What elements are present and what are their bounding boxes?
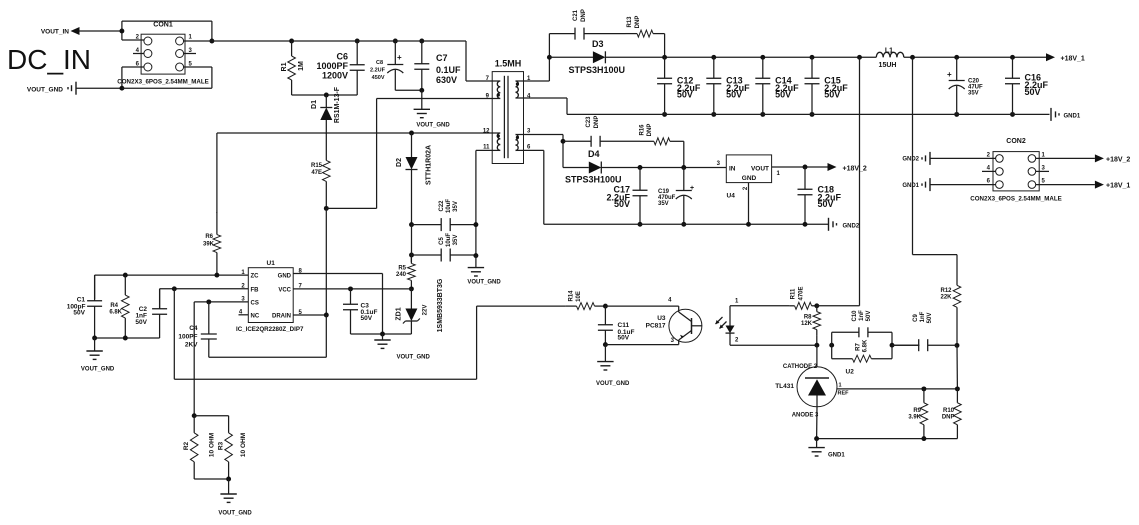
svg-text:3.9K: 3.9K — [908, 415, 921, 421]
svg-text:C10: C10 — [852, 310, 858, 322]
svg-text:+: + — [690, 185, 694, 192]
svg-text:NC: NC — [251, 313, 260, 319]
svg-text:VOUT_GND: VOUT_GND — [397, 355, 431, 361]
svg-text:1SMB5933BT3G: 1SMB5933BT3G — [437, 278, 444, 332]
svg-text:22V: 22V — [423, 305, 429, 316]
svg-text:R7: R7 — [856, 343, 862, 351]
svg-text:+18V_2: +18V_2 — [1106, 157, 1130, 164]
svg-text:VOUT_GND: VOUT_GND — [81, 367, 115, 373]
svg-text:2KV: 2KV — [185, 342, 198, 349]
svg-text:35V: 35V — [968, 91, 979, 97]
svg-text:R5: R5 — [398, 266, 406, 272]
svg-text:U1: U1 — [267, 260, 276, 267]
svg-text:GND: GND — [278, 274, 292, 280]
svg-text:12: 12 — [483, 129, 490, 135]
svg-text:35V: 35V — [453, 201, 459, 212]
svg-text:C7: C7 — [436, 53, 448, 63]
svg-text:10E: 10E — [576, 291, 582, 302]
svg-text:C22: C22 — [439, 200, 445, 212]
svg-text:50V: 50V — [775, 90, 791, 100]
svg-text:CON2: CON2 — [1006, 138, 1026, 145]
svg-text:CON1: CON1 — [153, 22, 173, 29]
svg-text:CS: CS — [251, 300, 259, 306]
svg-text:R16: R16 — [640, 124, 646, 136]
svg-text:GND2: GND2 — [902, 157, 919, 163]
svg-text:50V: 50V — [73, 310, 85, 317]
svg-text:D4: D4 — [588, 149, 600, 159]
svg-text:U2: U2 — [846, 369, 855, 376]
svg-text:12K: 12K — [801, 321, 813, 327]
svg-text:+: + — [947, 70, 952, 79]
svg-text:CON2X3_6POS_2.54MM_MALE: CON2X3_6POS_2.54MM_MALE — [117, 79, 208, 86]
svg-text:+: + — [397, 53, 402, 62]
svg-text:35V: 35V — [658, 201, 669, 207]
svg-text:STPS3H100U: STPS3H100U — [565, 175, 622, 185]
svg-text:11: 11 — [483, 145, 490, 151]
svg-text:C9: C9 — [913, 314, 919, 322]
svg-text:C6: C6 — [336, 52, 348, 62]
svg-text:DNP: DNP — [647, 124, 653, 137]
svg-text:R4: R4 — [110, 303, 118, 309]
svg-text:GND2: GND2 — [843, 224, 860, 230]
svg-text:50V: 50V — [361, 315, 373, 322]
svg-text:15UH: 15UH — [879, 62, 897, 69]
svg-text:REF: REF — [838, 391, 850, 397]
svg-text:GND1: GND1 — [1064, 114, 1081, 120]
svg-text:VOUT_GND: VOUT_GND — [218, 511, 252, 517]
svg-text:U3: U3 — [657, 315, 666, 322]
svg-text:R6: R6 — [205, 234, 213, 240]
svg-text:47E: 47E — [311, 170, 322, 176]
svg-text:C5: C5 — [439, 237, 445, 245]
svg-text:1: 1 — [839, 383, 842, 389]
svg-text:C1: C1 — [77, 297, 86, 304]
svg-text:VCC: VCC — [278, 287, 291, 293]
svg-text:50V: 50V — [1025, 87, 1041, 97]
svg-text:1nF: 1nF — [920, 311, 926, 322]
svg-text:DNP: DNP — [942, 415, 955, 421]
svg-text:1200V: 1200V — [322, 71, 348, 81]
svg-text:22K: 22K — [940, 295, 952, 301]
svg-text:+18V_1: +18V_1 — [1061, 56, 1085, 63]
svg-text:1.5MH: 1.5MH — [495, 59, 522, 69]
svg-text:DRAIN: DRAIN — [272, 314, 291, 320]
svg-text:50V: 50V — [135, 319, 147, 326]
svg-text:1000PF: 1000PF — [316, 61, 348, 71]
svg-text:240: 240 — [396, 272, 407, 278]
svg-text:10uF: 10uF — [446, 199, 452, 213]
svg-text:50V: 50V — [818, 199, 834, 209]
svg-text:C4: C4 — [189, 325, 198, 332]
svg-text:R11: R11 — [791, 288, 797, 299]
svg-text:2.2UF: 2.2UF — [370, 68, 386, 74]
svg-text:50V: 50V — [618, 335, 630, 342]
svg-text:STTH1R02A: STTH1R02A — [426, 145, 433, 185]
svg-text:50V: 50V — [677, 90, 693, 100]
svg-text:IN: IN — [729, 166, 736, 173]
svg-text:D1: D1 — [311, 100, 318, 109]
svg-text:GND1: GND1 — [828, 453, 845, 459]
svg-text:U4: U4 — [727, 193, 736, 200]
svg-text:R9: R9 — [913, 408, 921, 414]
svg-text:VOUT_IN: VOUT_IN — [41, 29, 69, 36]
svg-text:R3: R3 — [218, 441, 225, 450]
svg-text:L1: L1 — [885, 48, 893, 55]
svg-text:6.8K: 6.8K — [109, 310, 122, 316]
svg-text:GND: GND — [742, 175, 757, 182]
svg-text:10 OHM: 10 OHM — [240, 433, 247, 457]
svg-text:VOUT: VOUT — [751, 166, 769, 173]
svg-text:R14: R14 — [569, 290, 575, 302]
svg-text:R8: R8 — [804, 315, 812, 321]
svg-text:C23: C23 — [586, 116, 592, 128]
svg-text:FB: FB — [251, 287, 260, 293]
svg-text:1M: 1M — [298, 61, 305, 71]
svg-text:6.8K: 6.8K — [863, 339, 869, 352]
svg-text:0.1UF: 0.1UF — [436, 65, 461, 75]
svg-text:1nF: 1nF — [859, 310, 865, 321]
svg-text:DNP: DNP — [581, 9, 587, 22]
svg-text:+18V_1: +18V_1 — [1106, 183, 1130, 190]
svg-text:R15: R15 — [311, 163, 323, 169]
svg-text:10 OHM: 10 OHM — [209, 433, 216, 457]
svg-text:50V: 50V — [866, 311, 872, 322]
svg-text:10uF: 10uF — [446, 233, 452, 247]
svg-text:DNP: DNP — [594, 116, 600, 129]
svg-text:VOUT_GND: VOUT_GND — [467, 280, 501, 286]
svg-text:DC_IN: DC_IN — [7, 44, 91, 75]
svg-text:470E: 470E — [799, 286, 805, 300]
svg-text:R13: R13 — [627, 16, 633, 28]
svg-text:50V: 50V — [927, 313, 933, 324]
svg-text:50V: 50V — [824, 90, 840, 100]
svg-text:VOUT_GND: VOUT_GND — [596, 381, 630, 387]
svg-text:VOUT_GND: VOUT_GND — [27, 87, 63, 94]
svg-text:R10: R10 — [943, 408, 955, 414]
svg-text:R12: R12 — [940, 288, 952, 294]
svg-text:D3: D3 — [592, 39, 604, 49]
svg-text:STPS3H100U: STPS3H100U — [569, 65, 626, 75]
svg-text:C21: C21 — [573, 9, 579, 21]
svg-text:630V: 630V — [436, 75, 457, 85]
svg-text:ANODE 3: ANODE 3 — [792, 413, 819, 419]
svg-text:R2: R2 — [183, 441, 190, 450]
svg-text:IC_ICE2QR2280Z_DIP7: IC_ICE2QR2280Z_DIP7 — [236, 326, 304, 333]
svg-text:D2: D2 — [396, 158, 403, 167]
svg-text:C8: C8 — [376, 60, 383, 66]
svg-text:35V: 35V — [453, 235, 459, 246]
svg-text:ZD1: ZD1 — [396, 307, 403, 320]
svg-text:VOUT_GND: VOUT_GND — [416, 123, 450, 129]
svg-text:50V: 50V — [726, 90, 742, 100]
svg-text:50V: 50V — [614, 199, 630, 209]
svg-text:CON2X3_6POS_2.54MM_MALE: CON2X3_6POS_2.54MM_MALE — [970, 196, 1061, 203]
svg-text:DNP: DNP — [635, 16, 641, 29]
svg-text:R1: R1 — [281, 62, 288, 71]
svg-text:RS1M-13-F: RS1M-13-F — [334, 86, 341, 123]
svg-text:GND1: GND1 — [902, 183, 919, 189]
svg-text:450V: 450V — [372, 75, 385, 81]
svg-text:PC817: PC817 — [646, 323, 666, 330]
svg-text:CATHODE 2: CATHODE 2 — [783, 364, 818, 370]
svg-text:+18V_2: +18V_2 — [843, 166, 867, 173]
svg-text:39K: 39K — [203, 242, 215, 248]
svg-text:TL431: TL431 — [775, 383, 794, 390]
svg-text:ZC: ZC — [251, 274, 260, 280]
